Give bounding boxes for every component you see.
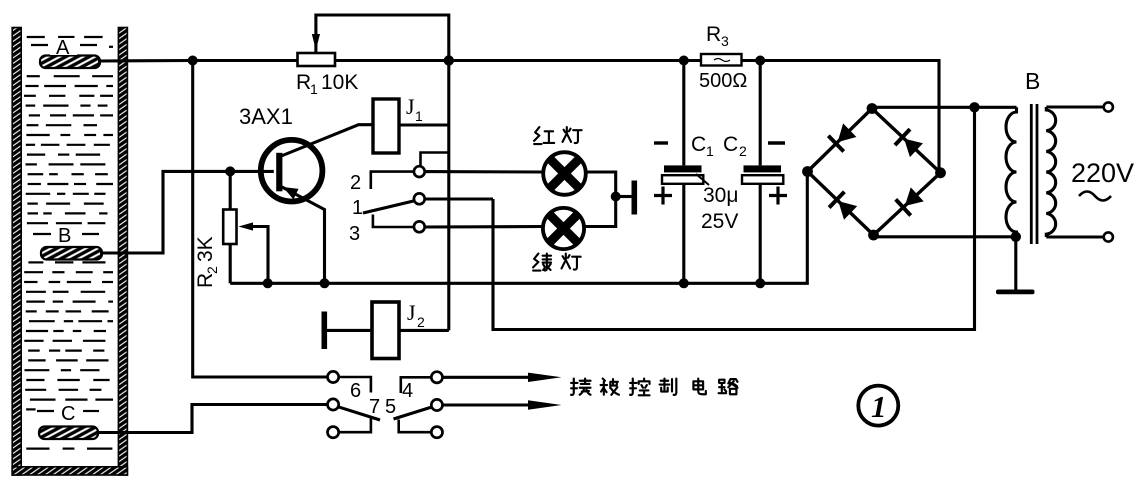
svg-text:2: 2 xyxy=(417,314,425,330)
svg-text:1: 1 xyxy=(706,143,714,159)
transistor collector line to J1 xyxy=(280,125,373,157)
wire: electrode C to switch contact 7 xyxy=(96,405,328,433)
svg-text:C: C xyxy=(723,133,738,156)
electrode A xyxy=(40,56,100,69)
svg-text:3: 3 xyxy=(721,33,729,49)
label jie-bei-kong-zhi-dian-lu (to controlled circuit) xyxy=(571,379,737,396)
svg-text:10K: 10K xyxy=(321,71,358,94)
wire: contact1 AC feed down and right to transformer xyxy=(493,107,975,329)
R2 wiper arrow to bottom bus xyxy=(239,222,269,283)
switch right contact 5 (middle) with lever xyxy=(394,399,443,419)
water surface dashes xyxy=(24,37,113,449)
bridge rectifier edges xyxy=(808,109,941,236)
svg-text:1: 1 xyxy=(415,108,423,124)
label J1 xyxy=(406,94,423,124)
svg-text:7: 7 xyxy=(369,396,380,418)
resistor R3 body xyxy=(701,54,742,66)
svg-text:1: 1 xyxy=(871,389,887,424)
svg-text:A: A xyxy=(56,37,70,59)
transformer secondary winding xyxy=(1046,107,1055,237)
R1 wiper arrow and loop to J1 bus xyxy=(312,15,449,125)
node: dot R2 wiper on bus xyxy=(263,278,273,288)
electrode C xyxy=(39,427,98,440)
contact 3 circle xyxy=(414,221,425,232)
wire: top bus A to R1 xyxy=(193,59,298,62)
svg-text:J: J xyxy=(406,94,415,119)
svg-text:6: 6 xyxy=(350,380,361,402)
label R2 3K (rotated) xyxy=(194,236,220,288)
wire: vertical from A-bus down to switch contact 6 xyxy=(193,61,328,378)
label plus C2 xyxy=(769,187,787,205)
label lv-deng (green lamp) xyxy=(533,254,581,271)
contact 2 fixed: stub and wire to red lamp xyxy=(371,153,543,190)
node: dot C1 on bus xyxy=(679,278,689,288)
node: dot AC tap xyxy=(969,102,979,112)
relay coil J1 xyxy=(373,99,399,153)
svg-text:1: 1 xyxy=(352,197,363,219)
wire: J2 right side xyxy=(399,329,449,332)
node: junction dot base/R2 xyxy=(225,166,235,176)
water tank bottom wall xyxy=(12,467,127,475)
label 30u with pointer xyxy=(696,174,738,207)
svg-text:220V: 220V xyxy=(1071,158,1134,188)
label J2 xyxy=(407,300,425,330)
wire: vertical bus from J1 down to J2 xyxy=(447,125,450,330)
wire: top bus R3 to bridge branch xyxy=(742,61,940,171)
switch right bottom throw xyxy=(399,420,443,438)
svg-text:J: J xyxy=(407,300,416,325)
wire: electrode A to top bus xyxy=(98,59,193,63)
wire: top bus R1 to R3 xyxy=(335,59,701,62)
wire: secondary top lead xyxy=(1046,105,1103,108)
label hong-deng (red lamp) xyxy=(534,127,582,144)
water tank right wall xyxy=(118,28,127,476)
contact 3 fixed: stub and wire to green lamp xyxy=(373,215,543,228)
label C1 xyxy=(691,133,714,159)
node: dot R3 left xyxy=(679,56,689,66)
node: bridge top corner xyxy=(867,103,878,114)
switch left contact 7 (middle) with lever xyxy=(328,399,381,420)
svg-text:C: C xyxy=(61,403,75,425)
transistor Q1 3AX1 circle xyxy=(261,140,323,202)
label R1 10K xyxy=(296,71,358,97)
resistor R2 body and leads xyxy=(223,171,236,283)
transformer primary winding xyxy=(1006,107,1017,237)
label minus C2 xyxy=(768,141,785,144)
arrow wire to controlled circuit (bottom) xyxy=(443,400,562,409)
svg-text:25V: 25V xyxy=(701,210,738,233)
node: dot R3 right xyxy=(755,56,765,66)
wire: bridge bottom corner to primary bottom xyxy=(874,235,1016,238)
svg-text:3: 3 xyxy=(349,223,360,245)
svg-text:5: 5 xyxy=(385,396,396,418)
water tank left wall xyxy=(12,28,21,476)
wire: J1 right side to vertical bus xyxy=(399,123,449,126)
ground symbol xyxy=(996,290,1035,295)
svg-text:1: 1 xyxy=(310,81,318,97)
contact 1 circle xyxy=(414,193,425,204)
transistor emitter line with arrow to bottom bus xyxy=(281,187,325,284)
switch left bottom throw xyxy=(328,419,371,438)
node: dot primary bottom junction xyxy=(1011,232,1021,242)
contact 1 moving lever and wire to AC xyxy=(363,199,493,213)
wire: bottom bus xyxy=(230,173,807,283)
svg-text:30μ: 30μ xyxy=(703,184,738,207)
label R3 xyxy=(706,23,729,49)
arrow wire to controlled circuit (top) xyxy=(443,373,562,382)
label C2 xyxy=(723,133,747,159)
diode D2 top-right xyxy=(893,128,924,159)
svg-text:B: B xyxy=(58,225,71,247)
switch right contact 4 (top) xyxy=(401,372,443,393)
label B xyxy=(33,225,99,247)
svg-text:2: 2 xyxy=(204,266,220,274)
label minus C1 xyxy=(654,141,668,144)
label AC tilde xyxy=(1079,192,1111,201)
wire: secondary bottom lead xyxy=(1046,235,1103,238)
svg-text:B: B xyxy=(1025,68,1040,94)
node: bridge left corner xyxy=(802,166,813,177)
lamp red (hong deng) xyxy=(543,152,586,195)
label C xyxy=(37,403,99,425)
svg-text:R: R xyxy=(296,71,311,94)
svg-text:3AX1: 3AX1 xyxy=(239,104,293,129)
svg-text:500Ω: 500Ω xyxy=(699,70,747,92)
svg-text:R: R xyxy=(706,23,721,46)
node: lamp junction dot xyxy=(611,192,621,202)
node: junction dot wiper loop on top bus xyxy=(444,55,454,65)
svg-text:2: 2 xyxy=(350,172,361,194)
node: bridge bottom corner xyxy=(868,230,879,241)
electrode B xyxy=(41,247,102,260)
label plus C1 xyxy=(654,187,672,205)
terminal top 220V xyxy=(1104,102,1113,111)
svg-text:C: C xyxy=(691,133,706,156)
node: junction dot at A bus xyxy=(188,56,198,66)
contact 2 circle xyxy=(414,166,425,177)
node: bridge right corner xyxy=(935,167,946,178)
diode D4 bottom-right xyxy=(894,186,925,217)
capacitor C2 xyxy=(742,61,783,284)
contact bar at lamps xyxy=(616,181,637,215)
svg-text:2: 2 xyxy=(739,143,747,159)
switch left contact 6 (top) xyxy=(328,371,371,392)
contact bar at J2 xyxy=(322,312,373,350)
svg-text:R: R xyxy=(194,273,217,288)
relay coil J2 xyxy=(372,302,399,359)
wire: bridge top corner to transformer primary top xyxy=(872,106,1017,109)
label A xyxy=(31,37,97,59)
transistor base bar xyxy=(276,153,282,192)
wire: down to ground xyxy=(1014,237,1017,290)
svg-text:4: 4 xyxy=(402,380,413,402)
diode D3 bottom-left xyxy=(828,190,859,221)
svg-text:3K: 3K xyxy=(194,236,217,262)
node: dot emitter on bus xyxy=(320,278,330,288)
transformer core xyxy=(1031,104,1037,244)
diode D1 top-left xyxy=(827,122,858,153)
lamp green (lv deng) xyxy=(543,208,584,249)
resistor R1 (potentiometer) body xyxy=(298,53,336,66)
capacitor C1 xyxy=(662,61,703,284)
terminal bottom 220V xyxy=(1104,232,1113,241)
figure number 1 in circle xyxy=(858,386,898,426)
wire: red lamp right xyxy=(584,172,616,227)
node: dot C2 on bus xyxy=(755,278,765,288)
wire: electrode B to transistor base xyxy=(100,171,274,253)
